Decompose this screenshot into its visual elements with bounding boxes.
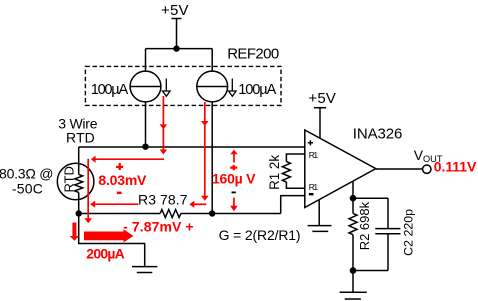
red arrowhead I1 mid	[160, 124, 168, 129]
red arrowhead 160uV up	[230, 150, 238, 155]
wire RTD bottom	[78, 192, 80, 213]
current source I1 circle	[130, 71, 161, 102]
ground G2 bar2	[312, 230, 328, 232]
op-amp U1 triangle	[305, 130, 376, 208]
wire R1 top pin	[286, 154, 304, 162]
wire op-amp ground stem	[318, 200, 320, 226]
red arrowhead into RTD bottom node	[90, 201, 95, 208]
ground G2 bar1	[308, 225, 332, 227]
svg-text:8.03mV: 8.03mV	[98, 172, 147, 188]
junction dot supply branch	[173, 45, 179, 51]
wire bottom horizontal left of R3	[79, 213, 160, 215]
current source I1 bar	[130, 86, 161, 88]
red thick arrow down 200uA	[70, 223, 79, 241]
pin label minus drawn	[309, 193, 314, 195]
current direction arrow I1	[163, 79, 171, 97]
RTD circle	[57, 163, 94, 200]
wire RTD riser	[78, 147, 80, 174]
junction dot feedback	[350, 195, 357, 202]
current source I2 circle	[197, 71, 228, 102]
wire ground branch from RTD node	[79, 214, 145, 266]
red wire through RTD	[87, 159, 89, 219]
ground G1 bar1	[132, 266, 157, 268]
wire R1 bottom pin	[286, 182, 304, 188]
red thick arrow right 200uA	[84, 229, 133, 242]
svg-text:REF200: REF200	[227, 46, 279, 63]
RTD zigzag	[75, 174, 83, 192]
red wire I1 current path	[162, 96, 164, 151]
svg-text:INA326: INA326	[353, 126, 403, 143]
svg-text:200µA: 200µA	[86, 245, 125, 261]
svg-text:100µA: 100µA	[238, 82, 276, 98]
svg-text:+5V: +5V	[308, 90, 336, 107]
wire feedback tap down	[352, 181, 354, 198]
red wire into R3 right	[194, 203, 206, 205]
wire horizontal branch to both current sources	[146, 48, 213, 50]
terminal VOUT circle	[423, 165, 431, 173]
label 160uV plus drawn	[230, 165, 237, 170]
junction dot node A	[142, 144, 148, 150]
wire step up to -input	[281, 196, 305, 214]
red arrowhead 160uV down	[230, 206, 238, 212]
svg-text:0.111V: 0.111V	[434, 159, 477, 175]
wire C2 bottom stem	[387, 234, 389, 271]
wire bottom horizontal right of R3	[181, 213, 281, 215]
ground G3 bar2	[345, 298, 361, 300]
svg-text:C2 220p: C2 220p	[401, 209, 415, 256]
svg-text:RTD: RTD	[66, 130, 95, 146]
+5V supply terminal top	[172, 18, 182, 20]
svg-text:+5V: +5V	[161, 2, 189, 19]
current source I2 bar	[197, 86, 228, 88]
red wire into RTD bottom node	[95, 203, 138, 205]
wire I1 to node A	[145, 102, 147, 147]
svg-text:- 7.87mV +: - 7.87mV +	[123, 218, 194, 234]
red arrowhead through RTD end	[84, 218, 92, 223]
ground G3 bar1	[340, 291, 367, 293]
red arrowhead I2 mid	[201, 121, 209, 126]
red arrow 160uV down stem	[233, 198, 235, 207]
wire feedback to C2 branch	[353, 197, 388, 199]
svg-text:R1 2k: R1 2k	[267, 155, 282, 190]
junction dot RTD bottom	[76, 210, 82, 216]
wire ground stem G3	[352, 271, 354, 293]
wire op-amp supply stem	[319, 108, 321, 139]
red arrow 160uV up stem	[233, 154, 235, 163]
resistor R3 zigzag	[160, 210, 181, 218]
svg-text:-50C: -50C	[12, 180, 43, 196]
wire top horizontal RTD to +input	[79, 146, 305, 148]
red arrowhead I2 end	[201, 196, 209, 201]
svg-text:160µ V: 160µ V	[212, 170, 256, 186]
svg-text:100µA: 100µA	[91, 82, 129, 98]
label 8.03mV minus drawn	[117, 192, 122, 195]
red wire I2 current path	[204, 102, 206, 196]
wire +5V stem to junction	[176, 19, 178, 49]
+5V supply terminal op-amp	[314, 107, 326, 109]
label 8.03mV plus drawn	[116, 163, 123, 170]
label 160uV minus drawn	[232, 192, 236, 194]
wire output	[376, 168, 423, 170]
capacitor C2 plate1	[375, 228, 400, 230]
wire R2 top stub	[352, 198, 354, 213]
svg-text:R2 698k: R2 698k	[357, 201, 372, 250]
wire C2 top stem	[387, 198, 389, 228]
red current annotation lines	[88, 96, 234, 219]
wire down to current source 2	[211, 49, 213, 72]
resistor R1 zigzag	[282, 162, 290, 182]
svg-text:R1: R1	[309, 182, 319, 192]
svg-text:R3 78.7: R3 78.7	[138, 192, 188, 208]
wire bottom R2C2 join	[353, 270, 388, 272]
svg-text:RTD: RTD	[62, 166, 77, 192]
capacitor C2 plate2	[375, 233, 400, 235]
pin label plus drawn	[308, 140, 313, 145]
wire down to current source 1	[145, 49, 147, 72]
red arrowhead I1 end	[160, 150, 168, 155]
junction dot R2C2 bottom	[350, 267, 357, 274]
junction dot R3 right	[209, 210, 215, 216]
svg-text:80.3Ω @: 80.3Ω @	[0, 165, 54, 181]
svg-text:R1: R1	[309, 150, 319, 160]
red wire into RTD plus	[95, 158, 164, 160]
REF200 dashed box	[85, 66, 281, 105]
resistor R2 zigzag	[349, 213, 357, 234]
red arrowhead into R3	[189, 201, 194, 208]
current direction arrow I2	[229, 79, 237, 97]
wire R2 bottom stub	[352, 235, 354, 271]
wire I2 down to bottom node	[211, 102, 213, 214]
svg-text:G = 2(R2/R1): G = 2(R2/R1)	[219, 227, 301, 243]
red arrowhead into RTD	[91, 156, 96, 163]
ground G1 bar2	[137, 272, 153, 274]
